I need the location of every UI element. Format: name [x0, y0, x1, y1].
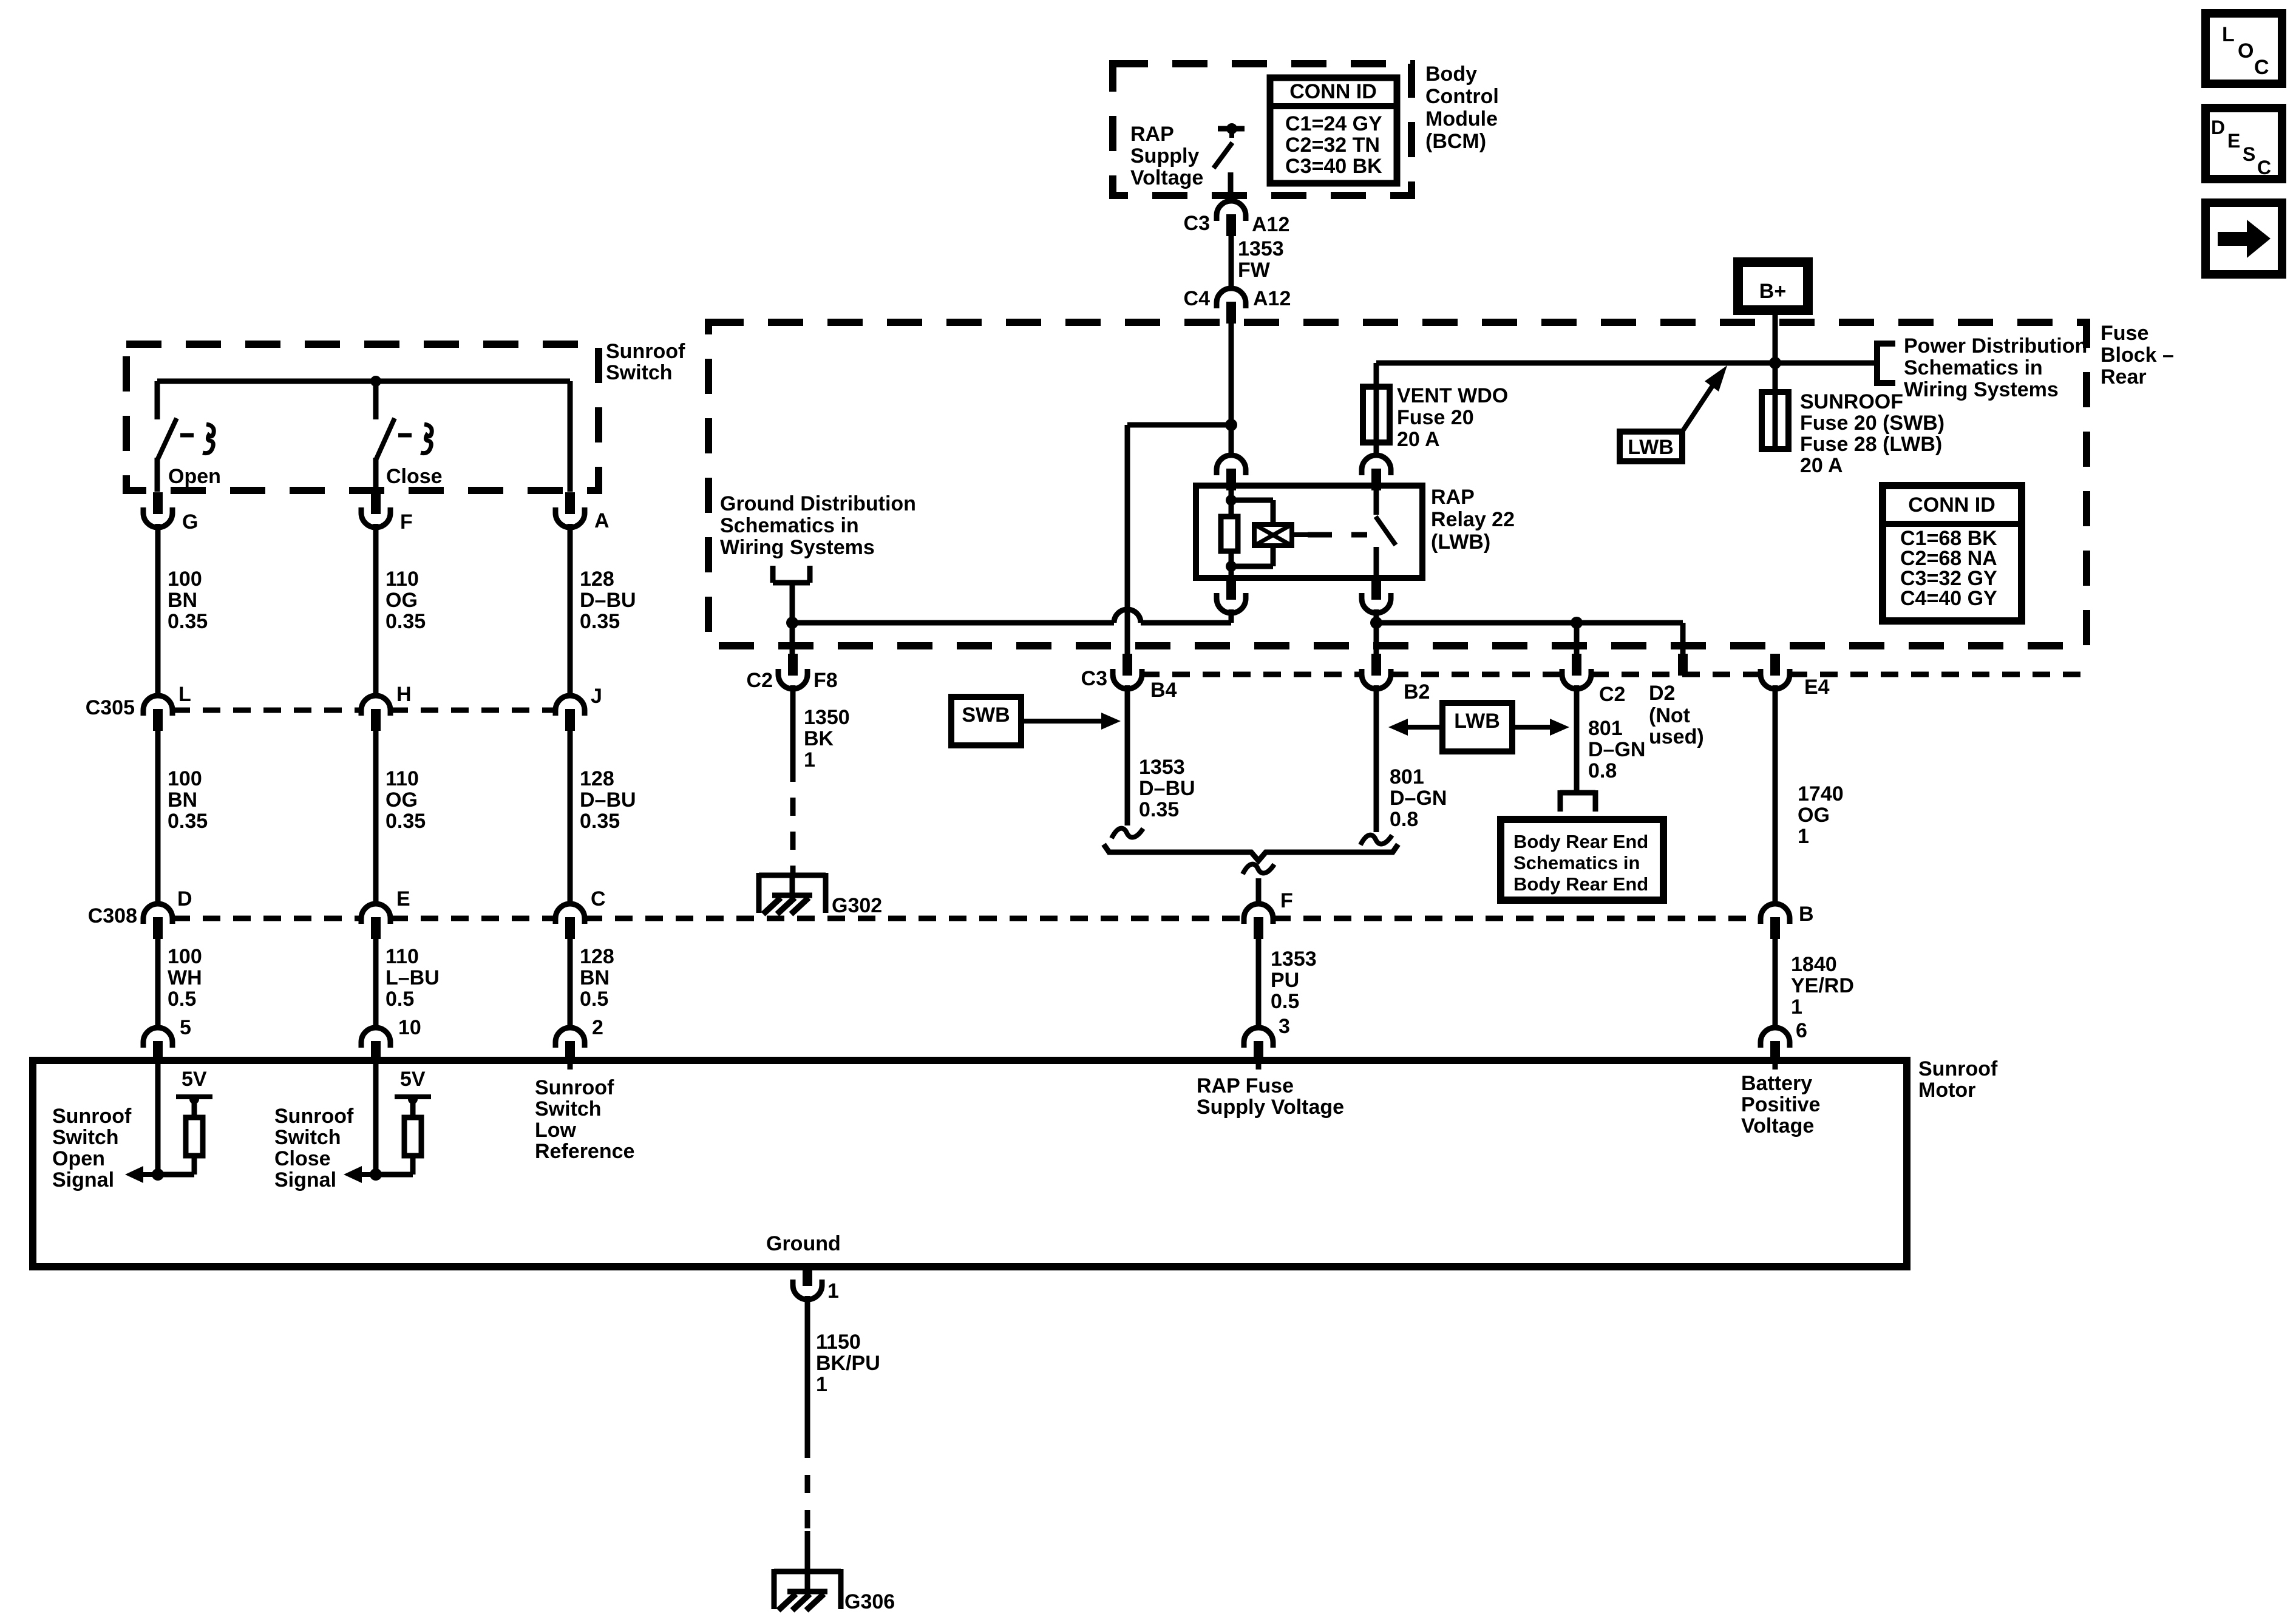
svg-text:Fuse 28 (LWB): Fuse 28 (LWB)	[1800, 433, 1942, 456]
svg-text:(Not: (Not	[1649, 704, 1690, 727]
fuse block bottom connector row dotted line	[1142, 672, 1362, 677]
svg-text:Fuse: Fuse	[2101, 322, 2148, 345]
svg-text:OG: OG	[385, 589, 418, 612]
svg-text:0.8: 0.8	[1588, 759, 1617, 782]
svg-text:20 A: 20 A	[1397, 428, 1440, 451]
svg-text:5V: 5V	[400, 1068, 426, 1091]
svg-text:20 A: 20 A	[1800, 454, 1843, 477]
svg-text:C: C	[2254, 56, 2269, 79]
svg-text:C305: C305	[86, 696, 135, 719]
svg-text:D–BU: D–BU	[580, 788, 636, 812]
svg-text:Body: Body	[1425, 63, 1477, 86]
svg-text:Switch: Switch	[606, 361, 673, 384]
svg-text:1840: 1840	[1791, 953, 1837, 976]
wire BCM switch to C3	[1228, 172, 1234, 203]
wire branch to B4	[1127, 422, 1231, 428]
svg-text:L: L	[178, 683, 191, 706]
svg-text:6: 6	[1796, 1019, 1807, 1042]
wire 100 BN 0.35 (G)	[155, 524, 161, 696]
Close switch actuator link	[398, 433, 423, 438]
wire relay-right to B2	[1374, 609, 1379, 655]
SWB arrow	[1021, 719, 1102, 724]
svg-text:D–BU: D–BU	[1139, 777, 1195, 800]
svg-text:1: 1	[804, 748, 815, 771]
svg-text:Switch: Switch	[274, 1126, 341, 1149]
wire 1840 YE/RD 1	[1773, 939, 1778, 1028]
svg-text:Sunroof: Sunroof	[1918, 1057, 1998, 1080]
connector J	[555, 696, 585, 716]
wire 1740 OG 1 (E4 to B)	[1773, 685, 1778, 905]
LWB arrow to rail	[1682, 385, 1713, 432]
svg-text:J: J	[591, 685, 602, 708]
svg-text:0.5: 0.5	[168, 988, 196, 1011]
svg-text:Low: Low	[535, 1119, 577, 1142]
svg-text:H: H	[396, 683, 412, 706]
svg-text:801: 801	[1390, 765, 1424, 788]
svg-text:LWB: LWB	[1628, 436, 1674, 459]
svg-text:LWB: LWB	[1454, 710, 1500, 733]
connector pin C2 right	[1572, 654, 1581, 676]
DESC icon box	[2206, 108, 2282, 179]
connector pin D2 not used	[1678, 654, 1688, 676]
motor pin 2 connector	[555, 1028, 585, 1048]
svg-text:Close: Close	[386, 465, 443, 488]
svg-text:0.35: 0.35	[1139, 798, 1179, 821]
svg-text:110: 110	[385, 945, 419, 968]
svg-text:Body Rear End: Body Rear End	[1513, 873, 1648, 895]
Sunroof Switch dashed box	[126, 344, 599, 490]
Body Rear End reference box	[1501, 819, 1663, 900]
Body Rear End fork symbol	[1558, 790, 1563, 812]
Close switch	[373, 381, 379, 419]
svg-text:Close: Close	[274, 1147, 331, 1170]
svg-text:PU: PU	[1271, 969, 1299, 992]
svg-text:0.35: 0.35	[385, 610, 426, 633]
Open switch	[155, 381, 160, 419]
svg-text:Fuse 20 (SWB): Fuse 20 (SWB)	[1800, 412, 1944, 435]
svg-text:1: 1	[1791, 995, 1802, 1019]
connector pin G	[153, 492, 163, 514]
svg-text:Fuse 20: Fuse 20	[1397, 406, 1474, 429]
wire break above F	[1243, 864, 1274, 874]
relay top-left connector	[1217, 455, 1246, 475]
connector pin A	[565, 492, 575, 514]
svg-text:1350: 1350	[804, 706, 850, 729]
svg-text:RAP Fuse: RAP Fuse	[1197, 1074, 1294, 1097]
BCM CONN ID table	[1270, 78, 1397, 183]
svg-text:Positive: Positive	[1741, 1093, 1820, 1116]
svg-text:Wiring Systems: Wiring Systems	[1904, 378, 2059, 401]
battery stub	[1773, 1063, 1778, 1070]
svg-text:A12: A12	[1253, 287, 1291, 310]
svg-text:Open: Open	[52, 1147, 105, 1170]
svg-text:10: 10	[398, 1016, 421, 1039]
svg-text:G: G	[182, 510, 198, 534]
svg-text:0.35: 0.35	[580, 610, 620, 633]
wire C4 to RAP relay	[1229, 322, 1234, 457]
svg-text:Ground: Ground	[766, 1232, 841, 1255]
svg-text:Schematics in: Schematics in	[1513, 852, 1640, 873]
svg-text:Voltage: Voltage	[1741, 1114, 1814, 1137]
relay bottom-left connector	[1226, 578, 1236, 600]
svg-text:B2: B2	[1404, 680, 1430, 703]
svg-text:128: 128	[580, 767, 614, 790]
svg-text:C1=24 GY: C1=24 GY	[1285, 112, 1382, 135]
svg-text:B: B	[1799, 903, 1814, 926]
svg-text:Sunroof: Sunroof	[52, 1105, 132, 1128]
svg-text:1353: 1353	[1238, 237, 1284, 260]
svg-text:SWB: SWB	[962, 703, 1010, 727]
svg-text:Motor: Motor	[1918, 1079, 1975, 1102]
wire brace to F	[1256, 878, 1262, 905]
connector C3 pin A12	[1217, 201, 1246, 221]
svg-text:1: 1	[827, 1280, 839, 1303]
svg-text:100: 100	[168, 945, 202, 968]
wire VENT fuse to relay	[1374, 442, 1379, 457]
svg-text:F8: F8	[813, 669, 838, 692]
svg-text:0.35: 0.35	[168, 610, 208, 633]
relay actuator dashed link	[1292, 532, 1308, 537]
close signal wire + arrow	[373, 1063, 379, 1175]
pullup resistor close 5V	[404, 1117, 421, 1156]
switch supply bus	[157, 379, 570, 384]
RAP Relay 22 box	[1196, 486, 1422, 578]
svg-text:C3=40 BK: C3=40 BK	[1285, 155, 1382, 178]
svg-text:110: 110	[385, 767, 419, 790]
svg-text:D–GN: D–GN	[1390, 787, 1447, 810]
svg-text:128: 128	[580, 945, 614, 968]
connector C	[555, 904, 585, 924]
wire break B4	[1112, 829, 1143, 838]
svg-text:RAP: RAP	[1431, 486, 1475, 509]
svg-text:A12: A12	[1252, 213, 1289, 236]
ground G302	[759, 873, 826, 878]
connector L	[143, 696, 172, 716]
fuse SUNROOF Fuse 20/28 20A	[1773, 363, 1778, 395]
svg-text:Rear: Rear	[2101, 365, 2147, 388]
connector C2 pin F8	[788, 654, 798, 676]
svg-text:Open: Open	[168, 465, 221, 488]
svg-text:Schematics in: Schematics in	[720, 514, 859, 537]
svg-text:0.5: 0.5	[385, 988, 414, 1011]
relay resistor	[1221, 517, 1238, 551]
svg-text:Switch: Switch	[535, 1097, 602, 1120]
svg-text:G302: G302	[832, 894, 882, 917]
svg-text:YE/RD: YE/RD	[1791, 974, 1854, 997]
connector pin E4	[1770, 654, 1780, 676]
svg-text:C4: C4	[1184, 287, 1211, 310]
relay bottom-right connector	[1371, 578, 1381, 600]
svg-text:F: F	[1280, 889, 1293, 912]
motor ground pin 1 connector	[803, 1264, 812, 1286]
svg-text:F: F	[400, 510, 413, 534]
svg-text:C: C	[591, 887, 606, 910]
svg-text:Block –: Block –	[2101, 344, 2174, 367]
svg-text:Supply Voltage: Supply Voltage	[1197, 1096, 1344, 1119]
svg-text:B4: B4	[1150, 679, 1177, 702]
wire 1353 PU 0.5	[1256, 939, 1262, 1028]
svg-text:3: 3	[1279, 1015, 1290, 1038]
low reference stub	[568, 1063, 573, 1070]
svg-text:C3: C3	[1184, 212, 1210, 235]
svg-text:D–BU: D–BU	[580, 589, 636, 612]
svg-text:D–GN: D–GN	[1588, 738, 1645, 761]
svg-text:0.35: 0.35	[580, 810, 620, 833]
connector F (RAP fuse feed)	[1244, 904, 1273, 924]
svg-text:Sunroof: Sunroof	[274, 1105, 354, 1128]
junction node close branch	[370, 376, 381, 387]
connector row C305 dotted line	[172, 708, 361, 713]
LWB callout box upper	[1620, 432, 1682, 461]
svg-text:(LWB): (LWB)	[1431, 531, 1490, 554]
svg-text:1: 1	[1798, 825, 1809, 848]
relay coil box with X	[1254, 524, 1292, 546]
wire 801 D-GN 0.8 (C2)	[1574, 685, 1580, 793]
svg-text:O: O	[2238, 39, 2254, 63]
junction node B+ rail	[1769, 357, 1781, 369]
wire 110 L-BU 0.5	[373, 939, 379, 1028]
svg-text:S: S	[2243, 143, 2255, 165]
wire 128 D-BU 0.35 mid (J-C)	[568, 731, 573, 904]
arrow icon box	[2206, 203, 2282, 274]
svg-text:128: 128	[580, 568, 614, 591]
svg-text:0.8: 0.8	[1390, 808, 1418, 831]
svg-text:FW: FW	[1238, 259, 1271, 282]
svg-text:1740: 1740	[1798, 782, 1844, 805]
LWB callout box lower with arrows	[1442, 703, 1512, 751]
svg-text:Power Distribution: Power Distribution	[1904, 334, 2087, 358]
svg-text:G306: G306	[844, 1590, 895, 1613]
svg-text:Module: Module	[1425, 107, 1498, 131]
relay top-right connector	[1362, 455, 1391, 475]
wire 110 OG 0.35 (F)	[373, 524, 379, 696]
connector H	[361, 696, 390, 716]
svg-text:5: 5	[180, 1016, 191, 1039]
svg-text:100: 100	[168, 568, 202, 591]
svg-text:Sunroof: Sunroof	[606, 340, 685, 363]
Ground Distribution fork symbol	[770, 566, 776, 583]
wire ground distribution down	[790, 583, 795, 655]
svg-text:Supply: Supply	[1130, 144, 1199, 168]
svg-text:110: 110	[385, 568, 419, 591]
connector D	[143, 904, 172, 924]
SWB callout box	[951, 697, 1021, 745]
svg-text:D: D	[177, 887, 192, 910]
connector C4 pin A12	[1217, 288, 1246, 308]
Open switch actuator link	[180, 433, 205, 438]
wire relay-left return with hop over B4 wire	[792, 620, 1114, 626]
svg-text:C2: C2	[1599, 683, 1625, 706]
connector row C308 dotted line	[172, 916, 361, 921]
svg-text:Signal: Signal	[52, 1168, 114, 1192]
svg-text:Battery: Battery	[1741, 1072, 1812, 1095]
junction node ground wire / relay return	[786, 617, 798, 629]
rap fuse stub	[1256, 1063, 1262, 1070]
wire rail to C2 and D2	[1376, 620, 1683, 626]
wire 100 WH 0.5	[155, 939, 161, 1028]
svg-text:C2=32 TN: C2=32 TN	[1285, 134, 1380, 157]
svg-text:Wiring Systems: Wiring Systems	[720, 536, 875, 559]
junction node spine/B4 branch	[1225, 419, 1237, 431]
pullup resistor open 5V	[186, 1117, 203, 1156]
svg-text:OG: OG	[1798, 804, 1830, 827]
Power Distribution reference bracket	[1877, 344, 1895, 383]
wire B+ down	[1773, 310, 1778, 395]
svg-text:2: 2	[592, 1016, 603, 1039]
svg-text:L: L	[2222, 23, 2235, 46]
svg-text:C2: C2	[747, 669, 773, 692]
connector pin F	[371, 492, 381, 514]
svg-text:used): used)	[1649, 725, 1704, 748]
svg-text:0.35: 0.35	[385, 810, 426, 833]
svg-text:Ground Distribution: Ground Distribution	[720, 492, 916, 515]
svg-text:BN: BN	[168, 788, 197, 812]
connector pin B2	[1371, 654, 1381, 676]
wire 801 D-GN 0.8 (B2)	[1374, 685, 1379, 832]
wire 1353 D-BU 0.35 (B4)	[1125, 685, 1130, 825]
motor pin 3 connector	[1244, 1028, 1273, 1048]
svg-text:BK/PU: BK/PU	[816, 1352, 880, 1375]
svg-text:5V: 5V	[182, 1068, 207, 1091]
connector B (battery feed)	[1761, 904, 1790, 924]
wire break B2	[1360, 835, 1392, 845]
connector E	[361, 904, 390, 924]
brace merge B4+B2 to F	[1104, 844, 1398, 861]
svg-text:C4=40 GY: C4=40 GY	[1900, 587, 1997, 610]
motor pin 6 connector	[1761, 1028, 1790, 1048]
svg-text:Switch: Switch	[52, 1126, 119, 1149]
svg-text:0.35: 0.35	[168, 810, 208, 833]
svg-text:VENT WDO: VENT WDO	[1397, 384, 1508, 407]
svg-text:E: E	[2227, 130, 2240, 152]
Sunroof Motor box	[33, 1060, 1907, 1267]
motor pin 10 connector	[361, 1028, 390, 1048]
svg-text:WH: WH	[168, 966, 202, 989]
wire 128 D-BU 0.35 (A)	[568, 524, 573, 696]
wire 110 OG 0.35 mid (H-E)	[373, 731, 379, 904]
svg-text:1353: 1353	[1139, 756, 1185, 779]
svg-text:0.5: 0.5	[580, 988, 608, 1011]
svg-text:A: A	[594, 509, 610, 532]
svg-text:C308: C308	[88, 904, 137, 927]
svg-text:0.5: 0.5	[1271, 990, 1299, 1013]
ground G306	[774, 1569, 841, 1575]
svg-text:100: 100	[168, 767, 202, 790]
wire 1353 FW	[1229, 235, 1234, 290]
svg-text:OG: OG	[385, 788, 418, 812]
svg-text:Voltage: Voltage	[1130, 166, 1203, 189]
svg-text:Sunroof: Sunroof	[535, 1076, 614, 1099]
connector C3 pin B4	[1123, 654, 1132, 676]
svg-text:Body Rear End: Body Rear End	[1513, 831, 1648, 852]
wire 1150 BK/PU 1 to G306	[805, 1296, 810, 1440]
svg-text:BN: BN	[168, 589, 197, 612]
wire 128 BN 0.5	[568, 939, 573, 1028]
svg-text:CONN ID: CONN ID	[1908, 493, 1995, 517]
svg-text:1150: 1150	[816, 1331, 861, 1354]
svg-text:D: D	[2211, 117, 2225, 138]
B+ power symbol	[1738, 262, 1808, 310]
motor pin 5 connector	[143, 1028, 172, 1048]
svg-text:C: C	[2257, 157, 2271, 178]
BCM dashed box (Body Control Module)	[1113, 64, 1411, 195]
svg-text:BN: BN	[580, 966, 610, 989]
svg-text:801: 801	[1588, 717, 1623, 740]
BCM internal switch (RAP supply driver)	[1218, 126, 1245, 132]
svg-text:C3: C3	[1081, 667, 1107, 690]
svg-text:D2: D2	[1649, 682, 1675, 705]
svg-text:L–BU: L–BU	[385, 966, 440, 989]
fuse VENT WDO Fuse 20 20A	[1363, 387, 1390, 442]
svg-text:BK: BK	[804, 727, 834, 750]
svg-text:Control: Control	[1425, 85, 1499, 108]
svg-text:E: E	[396, 887, 410, 910]
svg-text:Relay 22: Relay 22	[1431, 508, 1515, 531]
svg-text:1353: 1353	[1271, 947, 1317, 971]
relay coil branch wires	[1229, 486, 1234, 517]
svg-text:B+: B+	[1759, 280, 1786, 303]
wire 1350 BK 1 to G302	[790, 685, 796, 764]
svg-text:Reference: Reference	[535, 1140, 634, 1163]
svg-text:E4: E4	[1804, 676, 1830, 699]
LOC icon box	[2206, 13, 2282, 84]
junction node B2 rail	[1370, 617, 1382, 629]
svg-text:(BCM): (BCM)	[1425, 130, 1486, 153]
svg-text:CONN ID: CONN ID	[1289, 80, 1377, 103]
svg-text:1: 1	[816, 1373, 827, 1396]
svg-text:SUNROOF: SUNROOF	[1800, 390, 1903, 413]
wire rail VENT fuse to Power Distribution	[1376, 361, 1877, 366]
svg-text:Schematics in: Schematics in	[1904, 356, 2043, 379]
relay switch contact	[1374, 486, 1379, 515]
fuse block CONN ID table	[1883, 486, 2022, 621]
wire 100 BN 0.35 mid (L-D)	[155, 731, 161, 904]
open signal wire + arrow	[155, 1063, 161, 1175]
wire A branch	[568, 381, 573, 492]
Fuse Block - Rear dashed box	[708, 322, 2087, 646]
svg-text:Signal: Signal	[274, 1168, 336, 1192]
svg-text:RAP: RAP	[1130, 123, 1174, 146]
